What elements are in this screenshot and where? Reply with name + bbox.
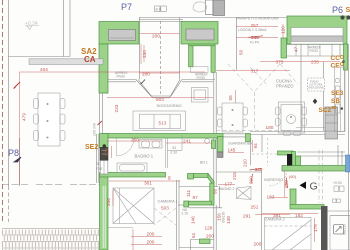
svg-text:90: 90 [168, 176, 172, 180]
svg-text:120: 120 [281, 26, 286, 34]
green wall: camera2 vertical bar [290, 189, 296, 205]
wall: bagno2 north line [179, 186, 218, 188]
svg-text:SE3: SE3 [331, 90, 344, 97]
survey flag P8 [14, 157, 21, 162]
wall: hall north line [216, 171, 262, 173]
wall: kitchen south double [250, 131, 345, 133]
furniture: dining table left [38, 93, 60, 146]
gray fill: shower column right [325, 107, 338, 139]
blue panel labels [8, 2, 343, 158]
furniture: elevator [330, 216, 350, 250]
black door: entry [287, 154, 292, 166]
furniture: kitchen table [279, 102, 305, 133]
svg-text:+0.94: +0.94 [333, 181, 342, 185]
wall: camera2 west wall [261, 171, 263, 250]
furniture: bagno1 vanity + sinks [139, 140, 162, 149]
wall: dining east verticals [323, 62, 325, 131]
svg-text:128: 128 [205, 226, 213, 231]
pen mark at bay [141, 80, 146, 85]
svg-text:INGRESSO: INGRESSO [264, 178, 283, 182]
furniture: table 2 [222, 103, 243, 132]
svg-text:404: 404 [40, 67, 48, 72]
svg-text:P7: P7 [121, 2, 132, 12]
line below table [296, 127, 325, 129]
green wall: bagno2 top [194, 174, 209, 178]
svg-text:146: 146 [191, 216, 196, 224]
green wall: kitchen right sliver [344, 44, 348, 70]
svg-text:55: 55 [228, 95, 233, 101]
wall: soggiorno north wall right [182, 79, 215, 81]
blue glass door [346, 155, 350, 172]
green wall: bagno2 diagonal [208, 174, 214, 187]
green wall: ingresso right wall [282, 166, 348, 172]
wall: corridor east wall lower [213, 205, 215, 250]
dashed: camera1 diagonals [154, 208, 176, 225]
wall: top-left room bottom [9, 56, 71, 58]
dark fixture SE2 [103, 144, 107, 148]
svg-text:215: 215 [232, 172, 237, 180]
wire: left boundary dashed line [2, 0, 4, 222]
orange dots [340, 56, 343, 59]
wall: kitchen north + cabinets row [282, 44, 344, 46]
svg-text:47: 47 [294, 46, 299, 52]
green wall: P7 left pier [99, 44, 108, 93]
svg-text:177: 177 [225, 181, 233, 186]
svg-text:Fx P4: Fx P4 [250, 41, 259, 45]
svg-text:235: 235 [311, 60, 319, 65]
green wall: loggia niche left [189, 46, 193, 67]
altitude triangle [25, 26, 39, 30]
dashed ceiling V dining [154, 64, 323, 225]
green wall: main horizontal wall [103, 134, 223, 139]
green wall: soggiorno south wall [100, 173, 166, 178]
svg-text:200: 200 [254, 242, 262, 247]
circled mark 2 [205, 139, 210, 144]
svg-text:200: 200 [147, 240, 155, 245]
orange sigla labels [81, 7, 350, 151]
svg-text:200: 200 [152, 34, 160, 39]
green wall: loggia niche top [189, 42, 216, 46]
wall: camera1 east wall double [176, 180, 178, 250]
svg-text:2.10: 2.10 [182, 212, 189, 216]
svg-text:FISSI: FISSI [310, 49, 318, 53]
red pen check mark [14, 82, 21, 89]
svg-text:250: 250 [131, 138, 139, 143]
svg-text:94: 94 [253, 143, 258, 149]
svg-text:200: 200 [206, 234, 214, 239]
svg-text:SC2: SC2 [319, 107, 332, 114]
svg-text:138: 138 [226, 216, 231, 224]
svg-text:SB: SB [331, 98, 340, 105]
svg-text:251: 251 [251, 204, 259, 209]
wall: bay window diagonals [136, 80, 151, 97]
svg-text:(60): (60) [289, 174, 297, 179]
wall: ingresso left verticals [250, 138, 252, 165]
svg-text:81: 81 [173, 146, 177, 150]
red tick lower pier [98, 121, 103, 125]
svg-text:LOGGIA C 5.28m2: LOGGIA C 5.28m2 [238, 28, 267, 32]
svg-text:F40: F40 [96, 167, 102, 171]
svg-text:236: 236 [106, 198, 111, 206]
svg-text:317: 317 [251, 69, 259, 74]
furniture: bagno1 tub [117, 163, 147, 173]
svg-text:2.10: 2.10 [171, 151, 178, 155]
piano cottura dashed box [308, 78, 325, 91]
svg-text:FISSI: FISSI [197, 76, 205, 80]
green wall: bagno2 vertical bar [210, 183, 214, 205]
svg-text:503: 503 [161, 206, 169, 211]
svg-text:G: G [310, 181, 318, 193]
wall: loggia parapet lines top [139, 17, 287, 19]
green wall: terrace P6 big block [287, 16, 347, 44]
svg-text:241: 241 [183, 139, 191, 144]
svg-text:230: 230 [142, 50, 147, 58]
svg-text:PARAPETTO MURATURA: PARAPETTO MURATURA [236, 17, 279, 21]
svg-text:180: 180 [266, 125, 274, 130]
gray fill: window sill left [109, 30, 136, 41]
svg-text:182: 182 [295, 213, 303, 218]
svg-text:50: 50 [97, 162, 101, 166]
svg-text:87: 87 [193, 195, 199, 200]
svg-text:P6: P6 [332, 5, 343, 15]
wall: loggia opening verticals [139, 18, 141, 80]
gray fill: P6 window white [291, 28, 343, 37]
furniture: kitchen top cabinets divisions [295, 45, 297, 57]
wall: corridor south line [179, 247, 214, 249]
svg-text:CA: CA [84, 55, 96, 64]
green wall: right stub of main wall [246, 134, 251, 142]
green wall: ingresso top wall [278, 151, 294, 155]
dashed: hall guide lines [252, 153, 278, 155]
gray fill: top beam [29, 59, 103, 65]
green wall: wardrobe bar [218, 137, 224, 153]
svg-text:210: 210 [243, 159, 248, 167]
red dimension texts [22, 23, 320, 247]
svg-text:GUARDAROBA: GUARDAROBA [228, 142, 253, 146]
svg-text:CAMERA 2: CAMERA 2 [265, 217, 286, 222]
svg-text:85: 85 [213, 188, 218, 194]
cloud revision mark [193, 2, 207, 12]
green wall: bagno2 left square [188, 174, 194, 180]
green wall: P6 left leg [281, 38, 287, 58]
svg-text:P8: P8 [8, 148, 19, 158]
svg-text:S: S [346, 7, 350, 14]
furniture group [34, 45, 350, 250]
strikethrough marks [249, 36, 288, 188]
furniture: shower bagno2 [237, 187, 252, 200]
svg-text:SOGGIORNO: SOGGIORNO [157, 103, 182, 108]
dashed: ingresso arc [268, 166, 288, 186]
svg-text:111: 111 [186, 189, 191, 197]
marker dots top right [340, 15, 344, 19]
svg-text:340: 340 [255, 167, 263, 172]
window symbol 88 [155, 6, 167, 12]
svg-text:BAGNO 1: BAGNO 1 [135, 154, 154, 159]
svg-text:176: 176 [104, 148, 109, 156]
svg-text:INDUZIONE: INDUZIONE [309, 86, 325, 90]
svg-text:8 8: 8 8 [156, 7, 162, 12]
svg-text:260: 260 [284, 180, 289, 188]
diamond marker kitchen [313, 99, 318, 105]
green wall: bottom platform [200, 239, 211, 244]
furniture: fridge column [192, 88, 209, 103]
wall: P8 inner vertical [19, 138, 21, 185]
svg-text:50: 50 [239, 49, 244, 55]
green wall: terrace P7 block [99, 16, 348, 250]
svg-text:361: 361 [144, 181, 152, 186]
svg-text:233: 233 [114, 104, 119, 112]
svg-text:BAGNO 2: BAGNO 2 [219, 187, 235, 191]
svg-text:291: 291 [243, 214, 251, 219]
small boxes near door right [334, 186, 339, 192]
G direction marker [300, 182, 307, 190]
svg-text:183: 183 [267, 195, 275, 200]
furniture: sofa [133, 111, 186, 131]
furniture: bed camera1 [113, 188, 154, 224]
dark wall: stairwell thick [321, 206, 328, 250]
wall: bottom right border [348, 171, 350, 250]
svg-text:503: 503 [156, 97, 164, 102]
green wall: left long vertical wall [100, 134, 109, 148]
svg-text:SE2: SE2 [85, 144, 98, 151]
green wall: bagno1 door jamb [212, 140, 216, 149]
svg-text:145: 145 [228, 148, 236, 153]
wall: soggiorno north wall left [108, 79, 136, 81]
svg-text:CAMERA 1: CAMERA 1 [158, 199, 179, 204]
cabinet row below niche [191, 67, 209, 73]
green wall: bagno2 bottom square [184, 201, 189, 207]
gray fill: chimney block [206, 0, 214, 15]
svg-text:60x190: 60x190 [221, 212, 225, 223]
svg-text:479: 479 [22, 113, 27, 121]
green wall: terrace right block [181, 22, 218, 45]
window glazing in green wall [102, 186, 104, 248]
green wall: camera2 bottom wall [290, 205, 324, 210]
door swing bagno1 [117, 138, 135, 156]
svg-text:210: 210 [249, 176, 254, 184]
svg-text:BG 1: BG 1 [200, 161, 208, 165]
svg-text:200: 200 [147, 231, 155, 236]
wall: bagno1 east [164, 138, 166, 168]
wall: closet double vertical near SE2 [96, 134, 98, 183]
wall: top-left room right double [63, 0, 65, 57]
svg-text:200 240: 200 240 [93, 123, 97, 136]
svg-text:PRANZO: PRANZO [276, 84, 294, 89]
svg-text:61: 61 [191, 232, 196, 238]
svg-text:375: 375 [276, 60, 284, 65]
furniture: kitchen right cabinets [335, 67, 346, 132]
svg-text:513: 513 [159, 121, 167, 126]
wall: corridor double vertical [213, 72, 215, 187]
wall: soggiorno south dashed [2, 184, 99, 186]
svg-text:CC: CC [331, 55, 341, 62]
wall: thin wall segment guardaroba-ingresso [223, 133, 246, 135]
svg-text:200: 200 [142, 72, 150, 77]
furniture: bed camera2 [265, 218, 312, 250]
wall: top-left room left [8, 0, 10, 186]
svg-text:80: 80 [332, 105, 338, 110]
svg-text:175: 175 [313, 224, 318, 232]
dashed: verticals bottom right [318, 150, 320, 203]
gray fill: window sill right [186, 29, 214, 40]
gray fill: wardrobe cap [218, 152, 224, 158]
wall: pier lower white wall [99, 93, 101, 134]
svg-text:CE: CE [331, 63, 341, 70]
svg-text:FISSI: FISSI [117, 75, 125, 79]
svg-text:345: 345 [251, 35, 259, 40]
green wall: loggia niche right [211, 46, 215, 73]
svg-text:98x130: 98x130 [343, 224, 347, 235]
gray fill: P6 window sill [291, 36, 343, 42]
